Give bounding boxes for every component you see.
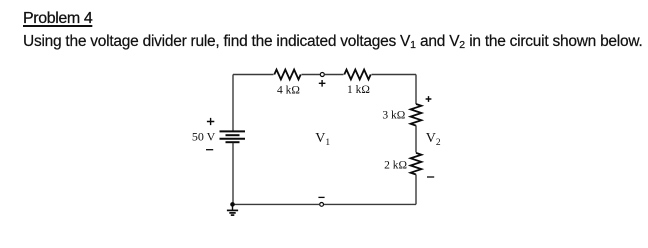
node terminal circle top (V1 +)	[320, 73, 324, 77]
problem statement	[23, 33, 643, 51]
wire left lower	[232, 143, 234, 205]
node terminal circle bottom (V1 -)	[320, 203, 324, 207]
resistor R 4k zigzag	[274, 70, 300, 80]
plus sign for V2 top	[426, 96, 432, 102]
ground bar 2	[229, 212, 235, 214]
resistor R 1k zigzag	[344, 70, 370, 80]
svg-text:4 kΩ: 4 kΩ	[277, 85, 300, 97]
ground bar 3	[231, 214, 235, 216]
ground bar 1	[227, 209, 238, 211]
minus sign at source	[206, 149, 213, 151]
battery plate long	[220, 138, 246, 140]
plus sign at source	[207, 118, 214, 125]
svg-text:V1: V1	[315, 131, 330, 148]
resistor R 3k vertical zigzag	[411, 104, 422, 126]
wire right lower	[415, 175, 417, 205]
wire right upper	[415, 75, 417, 105]
wire between node and 1k	[324, 74, 343, 76]
battery plate short bottom	[226, 141, 240, 143]
svg-text:1 kΩ: 1 kΩ	[347, 84, 370, 96]
wire between 4k and node	[302, 74, 321, 76]
minus sign for V2 bottom	[427, 176, 434, 178]
wire top-right segment	[372, 74, 417, 76]
svg-text:V2: V2	[426, 131, 441, 148]
svg-text:2 kΩ: 2 kΩ	[384, 160, 407, 172]
title: Problem 4	[23, 10, 92, 28]
resistor R 2k vertical zigzag	[411, 153, 422, 175]
minus sign at bottom node	[318, 196, 324, 198]
plus sign at top node	[319, 80, 326, 87]
svg-text:50 V: 50 V	[192, 130, 216, 144]
svg-text:3 kΩ: 3 kΩ	[382, 110, 405, 122]
wire right middle	[415, 126, 417, 153]
junction dot	[230, 202, 235, 207]
battery 50V: plate long top	[220, 130, 246, 132]
wire bottom right segment	[324, 203, 417, 205]
wire top-left segment	[233, 74, 274, 76]
battery plate short	[226, 134, 240, 136]
wire bottom left segment	[233, 203, 320, 205]
ground stub	[232, 204, 234, 210]
wire left upper	[232, 75, 234, 131]
